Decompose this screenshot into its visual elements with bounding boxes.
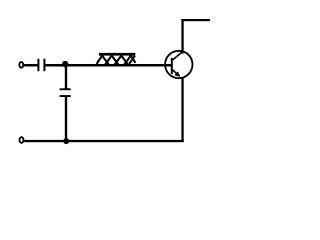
transistor Q1 emitter arrowhead bbox=[174, 71, 180, 77]
node A (junction dot at C2 tap) bbox=[62, 61, 68, 67]
transistor Q1 circle bbox=[165, 51, 192, 78]
inductor L1 winding (crossed-loop strokes) bbox=[97, 56, 136, 65]
node B (junction dot on ground rail) bbox=[63, 138, 69, 144]
inductor L1 core bar bbox=[99, 53, 135, 56]
capacitor C2 top plate bbox=[60, 88, 71, 90]
ground rail (bottom horizontal wire) bbox=[24, 140, 183, 142]
transistor Q1 emitter diagonal bbox=[172, 69, 179, 76]
terminal IN (top-left input terminal ring) bbox=[19, 62, 23, 68]
capacitor C1 (series coupling, left plate) bbox=[37, 59, 39, 71]
wire: collector up bbox=[181, 19, 183, 54]
wire: top horizontal to output bbox=[181, 19, 210, 21]
wire: emitter down to ground rail bbox=[181, 77, 183, 142]
transistor Q1 collector diagonal bbox=[172, 52, 182, 60]
capacitor C1 right plate bbox=[43, 59, 45, 71]
wire: input terminal to capacitor C1 bbox=[24, 64, 37, 67]
capacitor C2 bottom plate bbox=[60, 95, 71, 97]
wire: C2 down to ground rail bbox=[65, 97, 67, 141]
port marker (faint diamond at wire end) bbox=[210, 16, 215, 23]
terminal GND (bottom-left terminal ring) bbox=[20, 137, 24, 143]
wire: C1 to transistor base (horizontal main wire) bbox=[45, 64, 171, 67]
transistor Q1 base bar bbox=[171, 58, 173, 74]
wire: junction down to capacitor C2 bbox=[65, 65, 67, 89]
